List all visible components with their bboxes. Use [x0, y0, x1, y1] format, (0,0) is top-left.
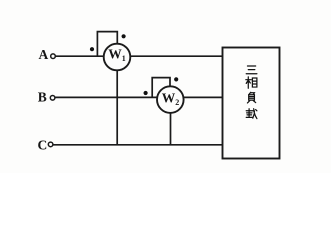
svg-text:B: B [38, 90, 47, 105]
svg-text:C: C [38, 138, 48, 153]
svg-text:A: A [39, 47, 49, 62]
